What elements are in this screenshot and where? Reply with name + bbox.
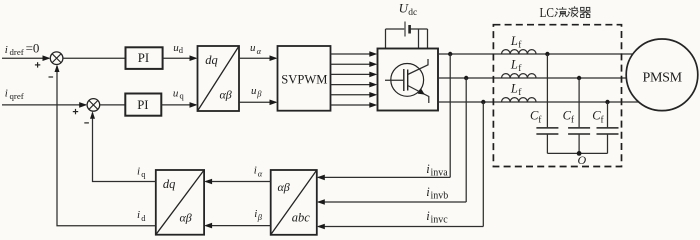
feedback wire i_d [55,65,156,226]
label i_qref [5,87,24,100]
feedback wire i_q [90,111,156,181]
junction dot tap c [481,100,485,104]
wire i_beta [204,208,271,228]
svg-text:i: i [5,87,8,99]
svg-text:u: u [173,87,179,99]
wire i_dref input [2,55,51,61]
svg-text:SVPWM: SVPWM [281,73,327,87]
svg-text:αβ: αβ [180,211,192,225]
wire i_qref input [2,102,87,108]
minus sign S2 [84,122,89,124]
capacitor Cf2 [563,78,591,153]
PI controller PI1 [126,47,163,69]
svg-text:i: i [254,165,257,177]
current tap wire c (vertical) [482,102,484,227]
svg-text:PI: PI [138,51,149,65]
svg-text:LC: LC [540,6,555,21]
plus sign S1 [35,62,40,67]
label LC (filter title) [540,6,555,21]
plus sign S2 [73,109,78,114]
svg-text:β: β [256,89,262,99]
svg-text:α: α [257,46,262,56]
label i_dref=0 [5,40,40,57]
current sense wire i_invc [317,209,484,229]
battery U_dc [405,22,410,37]
PMSM motor [626,39,698,111]
IGBT symbol [385,59,429,103]
current tap wire b (vertical) [465,78,467,202]
svg-text:dq: dq [163,177,176,191]
gate signal wires (6) [331,51,378,108]
inductor Lf3 [502,82,537,102]
svg-text:i: i [137,209,140,221]
svg-text:f: f [601,114,605,125]
neutral bus [547,152,607,154]
svg-text:f: f [518,39,522,50]
svg-text:O: O [578,153,587,167]
svg-text:abc: abc [292,211,311,225]
svg-text:inva: inva [431,167,449,178]
inductor Lf2 [502,58,537,78]
svg-text:αβ: αβ [278,180,290,194]
junction dot Lf2 out [577,76,581,80]
capacitor Cf3 [592,102,618,153]
dq to alpha-beta transform block (top) [198,46,240,111]
svg-text:i: i [5,44,8,56]
phase line A [438,53,634,55]
summing junction S2 [87,99,100,112]
current sense wire i_invb [317,185,466,205]
svg-text:q: q [141,169,146,179]
svg-text:L: L [510,34,518,48]
alpha-beta to abc block [271,170,317,235]
svg-text:qref: qref [10,91,24,101]
SVPWM block [278,46,331,111]
wire PI1 to dq block, label u_d [163,42,198,61]
svg-text:dq: dq [205,53,218,67]
dq to alpha-beta transform block (bottom) [156,170,204,235]
svg-text:i: i [137,165,140,177]
wire PI2 to dq block, label u_q [161,87,197,107]
summing junction S1 [50,52,63,65]
inverter block [378,49,439,111]
wire i_alpha [204,165,271,185]
node O [577,151,587,167]
junction dot Lf3 out [605,100,609,104]
wire S1 to PI1 [63,57,126,59]
svg-text:α: α [258,168,263,178]
svg-text:f: f [518,63,522,74]
glyph BO (Chinese) [567,6,578,17]
svg-text:PI: PI [137,98,148,112]
svg-text:invc: invc [431,215,449,226]
svg-text:dref: dref [10,47,24,57]
svg-text:f: f [518,87,522,98]
svg-text:u: u [250,42,256,54]
junction dot tap b [464,76,468,80]
svg-text:=0: =0 [26,40,40,55]
current tap wire a (vertical) [449,54,451,177]
wire u_alpha to SVPWM [239,42,278,61]
capacitor Cf1 [530,54,558,153]
svg-text:PMSM: PMSM [643,71,683,86]
svg-text:d: d [179,45,184,55]
svg-text:dc: dc [408,8,417,18]
svg-text:f: f [571,114,575,125]
svg-text:q: q [180,91,185,101]
glyph QI (Chinese) [580,7,591,17]
phase line B [438,77,628,79]
svg-text:d: d [141,213,146,223]
LC filter dashed box [493,25,621,167]
svg-text:f: f [538,114,542,125]
inductor Lf1 [502,34,537,54]
junction dot tap a [448,52,452,56]
svg-text:L: L [510,58,518,72]
svg-text:u: u [251,85,257,97]
wire u_beta to SVPWM [239,85,278,105]
svg-text:invb: invb [431,191,449,202]
glyph LV (Chinese) [555,7,567,17]
svg-text:αβ: αβ [220,88,232,102]
label U_dc [399,1,418,19]
phase line C [438,101,640,103]
junction dot Lf1 out [545,52,549,56]
wire S2 to PI2 [100,104,126,106]
PI controller PI2 [125,94,161,116]
DC source wires [386,29,428,49]
svg-text:β: β [257,212,263,222]
minus sign S1 [49,76,54,78]
svg-text:L: L [510,82,518,96]
current sense wire i_inva [317,162,450,180]
